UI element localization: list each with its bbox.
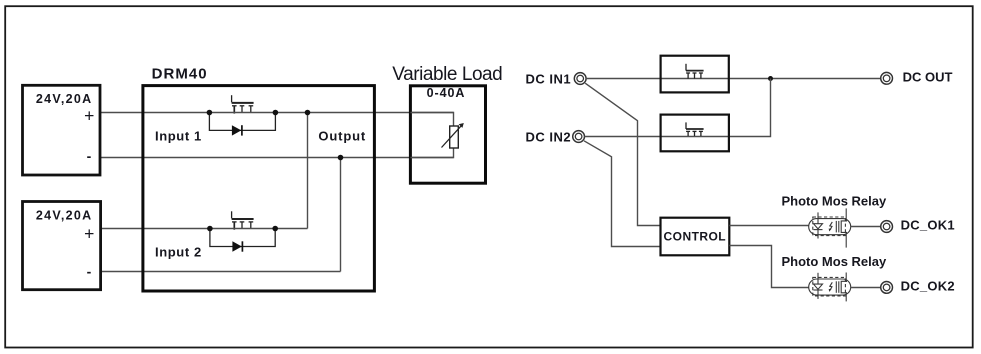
wire: supply1 - rail <box>100 157 454 159</box>
diode D1 branch <box>209 113 275 131</box>
diode D2 <box>232 241 242 251</box>
wire: relay 1 to DC_OK1 <box>851 226 881 228</box>
diode D1 <box>232 125 242 135</box>
wire: DC IN1 sense to control <box>585 83 660 225</box>
svg-text:CONTROL: CONTROL <box>664 229 726 243</box>
svg-text:DRM40: DRM40 <box>152 66 208 83</box>
svg-text:-: - <box>87 148 92 164</box>
photo MOS relay PR1 <box>809 208 851 247</box>
switch box 1 <box>661 56 729 93</box>
terminal DC_OK2 <box>881 282 893 294</box>
wire: load top lead <box>410 113 453 127</box>
DRM40 module box <box>143 86 375 291</box>
svg-text:+: + <box>84 223 94 243</box>
junction dot input1 right <box>273 110 279 116</box>
svg-text:-: - <box>87 264 92 280</box>
wire: input2 output rail <box>275 228 307 230</box>
svg-text:Photo Mos Relay: Photo Mos Relay <box>782 254 888 269</box>
svg-text:Input 2: Input 2 <box>155 245 202 260</box>
junction dot DC OUT line <box>768 76 773 81</box>
MOSFET Q1 (input1) <box>232 95 254 113</box>
wire: Q1 channel segment of input1 rail <box>209 112 275 114</box>
svg-text:Variable Load: Variable Load <box>392 64 502 85</box>
svg-text:DC OUT: DC OUT <box>903 70 953 85</box>
terminal DC IN2 <box>573 131 585 143</box>
wire: input1 output rail to variable load <box>275 112 453 114</box>
wire: DC IN2 to switch box 2 <box>584 136 660 138</box>
diode D2 branch <box>210 229 275 247</box>
MOSFET Q2 (input2) <box>232 211 254 229</box>
terminal DC OUT <box>881 72 893 84</box>
wire: load bottom lead <box>410 148 453 158</box>
svg-text:DC IN1: DC IN1 <box>526 71 572 86</box>
svg-text:DC_OK1: DC_OK1 <box>901 218 955 233</box>
svg-text:0-40A: 0-40A <box>427 86 466 100</box>
wire: switch box 1 to DC OUT <box>729 78 881 80</box>
power supply PS1 box <box>23 85 101 175</box>
variable resistor RV1 <box>442 123 464 148</box>
wire: supply1 + to input1 rail <box>100 112 209 114</box>
wire: supply2 - rail <box>101 271 341 273</box>
wire: supply2 + to input2 rail <box>101 228 210 230</box>
junction dot input2 left <box>207 226 213 232</box>
MOSFET Q4 (switch box 2) <box>686 122 704 136</box>
wire: switch box 2 to junction <box>729 79 771 137</box>
terminal DC IN1 <box>574 73 586 85</box>
wire: minus rail vertical <box>340 158 342 272</box>
wire: Q2 channel segment of input2 rail <box>210 228 275 230</box>
power supply PS2 box <box>23 202 101 290</box>
wire: switch box 2 through wire <box>661 136 729 138</box>
wire: DC IN2 sense to control <box>584 141 661 247</box>
wire: output node vertical <box>307 113 309 229</box>
wire: control to relay 2 <box>729 246 808 288</box>
svg-text:+: + <box>84 106 94 126</box>
junction dot input2 right <box>272 226 278 232</box>
svg-text:24V,20A: 24V,20A <box>36 208 93 222</box>
terminal DC_OK1 <box>881 221 893 233</box>
svg-text:DC IN2: DC IN2 <box>526 130 572 145</box>
svg-text:Input 1: Input 1 <box>155 129 202 144</box>
wire: DC IN1 to switch box 1 <box>586 78 661 80</box>
photo MOS relay PR2 <box>809 273 851 302</box>
wire: relay 2 to DC_OK2 <box>851 287 881 289</box>
Variable Load box <box>410 86 485 183</box>
svg-text:Photo Mos Relay: Photo Mos Relay <box>782 193 888 208</box>
svg-text:Output: Output <box>318 129 366 144</box>
svg-text:24V,20A: 24V,20A <box>36 92 93 106</box>
wire: switch box 1 through wire <box>661 78 729 80</box>
wire: control to relay 1 <box>729 225 808 227</box>
MOSFET Q3 (switch box 1) <box>686 64 704 79</box>
svg-text:DC_OK2: DC_OK2 <box>901 278 955 293</box>
junction dot input1 left <box>207 110 213 116</box>
junction dot minus rail <box>338 155 344 161</box>
CONTROL box <box>661 218 730 256</box>
junction dot output node <box>305 110 311 116</box>
switch box 2 <box>661 115 729 152</box>
